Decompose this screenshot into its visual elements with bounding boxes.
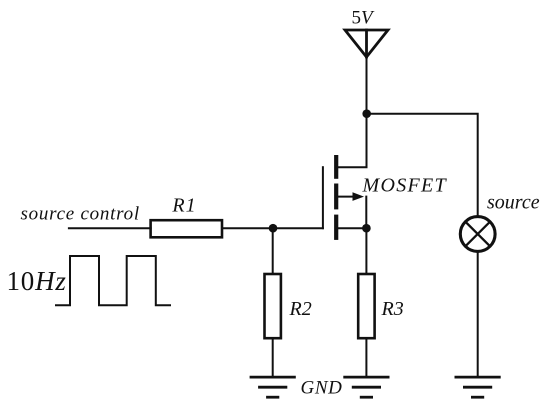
wire: node A to MOSFET drain (338, 114, 367, 168)
lamp (source) symbol (460, 217, 495, 252)
wire: R3 to ground (365, 338, 367, 377)
wire: node C to R2 (272, 228, 274, 274)
node B (source junction) (362, 224, 371, 233)
node A (drain/lamp junction) (362, 109, 371, 118)
svg-text:MOSFET: MOSFET (362, 175, 448, 197)
node C (gate/R2 junction) (269, 224, 278, 233)
svg-text:R3: R3 (381, 298, 404, 320)
MOSFET gate line (322, 167, 324, 228)
svg-text:source: source (487, 192, 540, 214)
ground (under lamp) (456, 377, 499, 397)
transistor MOSFET channel bars (334, 157, 338, 238)
wire: R1 to node C (222, 227, 273, 229)
wire: node A to lamp (top right) (367, 114, 478, 217)
svg-text:R2: R2 (289, 298, 312, 320)
wire: R2 to ground (272, 338, 274, 377)
ground (under R2) (251, 377, 294, 397)
svg-text:R1: R1 (171, 195, 196, 217)
wire: supply to node A (366, 57, 368, 114)
5V supply triangle symbol (345, 30, 388, 57)
svg-text:GND: GND (301, 378, 343, 399)
resistor R3 (358, 274, 374, 338)
wire: lamp to ground (477, 252, 479, 378)
svg-text:10Hz: 10Hz (7, 266, 67, 296)
MOSFET source stub (338, 227, 366, 229)
wire: node B to R3 (365, 228, 367, 274)
svg-text:source control: source control (21, 203, 140, 224)
wire: node C to gate (273, 227, 323, 229)
MOSFET body stub with arrow (338, 192, 366, 228)
wire: input to R1 (69, 227, 151, 229)
ground (under R3) (345, 377, 388, 397)
resistor R1 (151, 220, 222, 237)
svg-text:5V: 5V (351, 8, 375, 29)
square wave 10Hz signal (56, 256, 170, 305)
resistor R2 (265, 274, 281, 338)
